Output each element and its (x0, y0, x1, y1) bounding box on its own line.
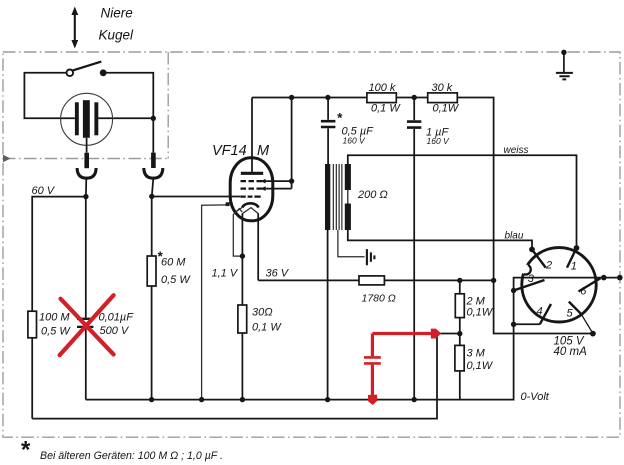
wire pin4 stub (514, 323, 540, 325)
svg-text:4: 4 (537, 306, 543, 318)
capsule right membrane plate (94, 102, 98, 135)
node rail-screen (289, 95, 294, 100)
wire filament left leg (241, 214, 243, 257)
svg-text:weiss: weiss (504, 145, 529, 156)
resistor R 3M (455, 345, 464, 371)
tube anode bar (241, 172, 263, 175)
svg-text:40 mA: 40 mA (554, 346, 588, 358)
node cathode-filament (240, 253, 245, 258)
svg-text:Niere: Niere (101, 6, 133, 21)
svg-text:0,1W: 0,1W (433, 103, 460, 115)
svg-text:200 Ω: 200 Ω (357, 189, 388, 201)
node rail-2M (457, 278, 462, 283)
tube metallization contact (226, 202, 230, 206)
capsule K1 envelope (61, 93, 113, 145)
svg-text:1780 Ω: 1780 Ω (362, 293, 396, 305)
red deletion cross (60, 295, 114, 355)
red capacitor added (364, 357, 381, 363)
resistor R 30ohm (238, 305, 247, 333)
tube cathode arc (242, 203, 258, 207)
svg-text:Bei älteren Geräten: 100 M Ω: Bei älteren Geräten: 100 M Ω ; 1,0 µF . (40, 450, 223, 462)
connector plug circle (522, 248, 596, 322)
wire filament rail (258, 279, 493, 281)
node pin4 tap (511, 322, 516, 327)
resistor R 30k (428, 93, 458, 103)
svg-text:*: * (337, 111, 343, 126)
wire g3 to screen node (263, 180, 292, 182)
node rail-supply (491, 278, 496, 283)
resistor R 1780 ohm (359, 276, 384, 285)
node rail-0.5uF (325, 95, 330, 100)
svg-text:160 V: 160 V (427, 136, 451, 146)
transformer T1 primary winding (325, 164, 330, 230)
tube grid g1 dashes (241, 196, 261, 198)
svg-text:0,5 W: 0,5 W (161, 274, 191, 286)
svg-text:3 M: 3 M (467, 348, 486, 360)
wire to 30ohm (241, 256, 243, 305)
wire primary bottom to bus (327, 230, 329, 400)
svg-text:160 V: 160 V (343, 136, 367, 146)
red mod bus arrowhead (368, 395, 377, 405)
capsule pin left (84, 153, 89, 168)
node left 60V junction (83, 194, 88, 199)
pin 6 (579, 278, 601, 291)
svg-text:30Ω: 30Ω (252, 307, 273, 319)
svg-text:0-Volt: 0-Volt (521, 391, 550, 403)
svg-text:5: 5 (567, 308, 574, 320)
wire shield net pins 3 4 6 and 0V bus (86, 278, 620, 400)
wire 60V branch (32, 197, 86, 312)
node screen (289, 178, 294, 183)
transformer secondary winding (345, 164, 351, 190)
pin 2 (532, 250, 546, 268)
svg-text:blau: blau (505, 231, 524, 242)
node bus 30ohm (240, 397, 245, 402)
capacitor 1uF (413, 98, 415, 121)
pattern direction arrow (71, 7, 78, 49)
wire down to 60M (151, 196, 153, 256)
svg-text:36 V: 36 V (266, 268, 290, 280)
pin 3 (514, 280, 545, 291)
svg-text:VF14: VF14 (212, 143, 247, 159)
resistor R 60M (147, 256, 156, 286)
node pin1 (574, 245, 580, 251)
capsule left membrane plate (75, 102, 79, 135)
svg-text:0,1 W: 0,1 W (252, 322, 282, 334)
svg-text:0,1W: 0,1W (467, 360, 494, 372)
svg-text:Kugel: Kugel (99, 28, 135, 43)
resistor R 2M (459, 280, 461, 293)
capsule compartment dashed box (3, 52, 168, 159)
wire anode top rail (252, 98, 593, 334)
wire core to ground (338, 230, 365, 257)
switch S1 lever (72, 62, 101, 71)
switch S1 open contact (67, 70, 74, 77)
wire g2 to screen node (263, 188, 292, 190)
pin 1 (567, 248, 577, 268)
wire backplate down (86, 138, 88, 153)
wire left socket down (85, 178, 87, 196)
node bus metallization (199, 397, 204, 402)
tube V1 VF14 envelope (230, 158, 273, 221)
node capsule right (151, 116, 156, 121)
svg-text:0,5 W: 0,5 W (41, 326, 71, 338)
tube filament (236, 208, 258, 220)
capacitor 0,5uF (327, 98, 329, 120)
node supply outer (590, 331, 596, 337)
wire switch to right column (106, 73, 153, 153)
tube grid g3 dashes (241, 180, 263, 182)
wire capsule right membrane (98, 117, 153, 119)
red mod arrowhead (431, 329, 442, 339)
capacitor 0,01uF (deleted) (77, 319, 93, 327)
node right grid junction (149, 194, 154, 199)
svg-text:0,1W: 0,1W (467, 307, 494, 319)
wire crossed-cap branch upper (85, 197, 87, 318)
transformer core (333, 164, 342, 230)
wire right socket down (152, 178, 154, 196)
wire 60M to bus (151, 286, 153, 400)
node pin2 (529, 247, 535, 253)
svg-text:3: 3 (528, 273, 535, 285)
svg-text:500 V: 500 V (100, 325, 130, 337)
wire screen node vertical (291, 98, 293, 189)
red mod cap lead upper (371, 334, 374, 357)
svg-text:60 V: 60 V (32, 185, 56, 197)
wire anode up (251, 98, 253, 172)
node pin6 wire (601, 275, 607, 281)
node bus 60M (149, 397, 154, 402)
capsule pin right (151, 153, 156, 168)
pin 4 (540, 304, 551, 324)
capsule socket cup right (144, 168, 163, 178)
svg-text:1: 1 (571, 260, 577, 272)
wire metallization to ground bus (202, 205, 228, 400)
pin 5 (569, 302, 581, 314)
svg-text:0,01µF: 0,01µF (99, 312, 135, 324)
switch S1 closed contact (100, 69, 107, 76)
wire cathode lead (233, 207, 242, 256)
node rail-1uF (412, 95, 417, 100)
svg-text:30 k: 30 k (432, 82, 453, 94)
wire 100M down to lower bus (31, 338, 33, 419)
ground symbol at transformer (367, 249, 375, 265)
arrowhead on compartment line (3, 155, 11, 162)
wire grid junction to tube (152, 196, 241, 198)
wire weiss (348, 155, 577, 248)
capsule socket cup left (77, 168, 96, 178)
wire blau (348, 230, 532, 250)
capsule backplate (83, 100, 90, 138)
wire 30ohm to bus (241, 333, 243, 400)
svg-text:100 k: 100 k (369, 82, 396, 94)
red mod cap lead lower (371, 365, 374, 396)
svg-text:6: 6 (580, 286, 587, 298)
wire switch loop left (24, 73, 75, 119)
svg-text:100 M: 100 M (39, 312, 70, 324)
node 2M-3M (457, 331, 462, 336)
node bus 1uF (412, 397, 417, 402)
node bus transformer (325, 397, 330, 402)
tube grid g2 dashes (241, 188, 263, 190)
resistor R 100k (367, 93, 396, 103)
red mod wire (372, 332, 431, 335)
connector keyway notch (521, 265, 531, 275)
wire crossed-cap branch lower (85, 328, 87, 400)
resistor R 100M (28, 311, 37, 338)
svg-text:2: 2 (545, 260, 552, 272)
svg-text:0,1 W: 0,1 W (371, 103, 401, 115)
svg-text:M: M (257, 143, 270, 159)
ground symbol top right (561, 50, 566, 55)
wire bias to 3M node (437, 333, 460, 335)
svg-text:60 M: 60 M (161, 257, 186, 269)
node pin3 tap (511, 288, 516, 293)
node on housing (617, 275, 623, 281)
svg-text:1,1 V: 1,1 V (212, 268, 239, 280)
wire filament right leg (257, 214, 259, 281)
wire lower bias bus (32, 334, 437, 419)
